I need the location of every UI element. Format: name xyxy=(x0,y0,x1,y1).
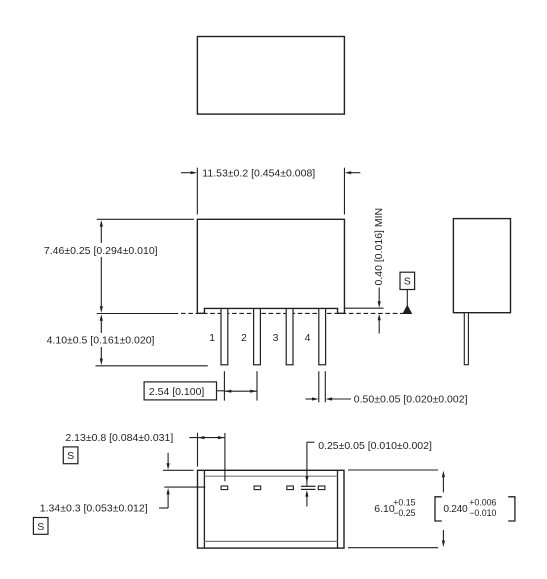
bottom view inner top line gray xyxy=(204,475,337,477)
dimension 11.53 extension lines xyxy=(197,168,344,215)
dimension 6.10 big bracket left xyxy=(435,497,442,521)
dimension 0.25 bottom arrow xyxy=(305,490,308,507)
svg-text:+0.15: +0.15 xyxy=(393,498,415,508)
pin 3 front xyxy=(286,308,293,364)
dimension 1.34 top extension line xyxy=(163,469,194,471)
svg-text:2.13±0.8 [0.084±0.031]: 2.13±0.8 [0.084±0.031] xyxy=(65,432,173,444)
dimension 6.10 bottom extension line xyxy=(348,547,438,549)
pin 4 front xyxy=(319,308,326,364)
dimension 2.54 extension lines xyxy=(224,371,257,400)
svg-text:11.53±0.2 [0.454±0.008]: 11.53±0.2 [0.454±0.008] xyxy=(202,167,315,179)
svg-text:S: S xyxy=(37,521,44,533)
svg-text:−0.010: −0.010 xyxy=(469,508,496,518)
svg-text:0.240: 0.240 xyxy=(443,504,468,515)
dimension 4.10 bottom extension line (pin end level) xyxy=(96,365,208,367)
seating plane extension solid left xyxy=(97,313,178,315)
bottom view inner wall left xyxy=(203,470,205,548)
dimension 0.40 extension line (body bottom face) xyxy=(344,307,383,309)
side view outline xyxy=(453,219,510,313)
datum leader line xyxy=(406,290,408,307)
dimension 6.10 big bracket right xyxy=(508,497,515,521)
dimension 2.13 extension lines xyxy=(198,433,225,481)
dimension 2.54 double arrow xyxy=(224,390,257,393)
pin 1 front xyxy=(221,308,228,364)
svg-text:2: 2 xyxy=(241,332,247,344)
dimension 2.54 leader xyxy=(217,390,225,392)
svg-text:4.10±0.5 [0.161±0.020]: 4.10±0.5 [0.161±0.020] xyxy=(47,335,155,347)
dimension 4.10 line with arrows xyxy=(100,314,103,365)
svg-text:1.34±0.3 [0.053±0.012]: 1.34±0.3 [0.053±0.012] xyxy=(40,503,148,515)
dimension 4.10 text xyxy=(46,333,158,347)
svg-text:7.46±0.25 [0.294±0.010]: 7.46±0.25 [0.294±0.010] xyxy=(44,245,158,257)
svg-text:2.54 [0.100]: 2.54 [0.100] xyxy=(149,386,205,398)
dimension 0.50 left arrow xyxy=(306,397,319,400)
bottom view outline xyxy=(198,470,345,548)
bottom view inner wall right xyxy=(337,470,339,548)
svg-text:0.25±0.05 [0.010±0.002]: 0.25±0.05 [0.010±0.002] xyxy=(318,440,432,452)
svg-text:0.50±0.05 [0.020±0.002]: 0.50±0.05 [0.020±0.002] xyxy=(354,394,468,406)
svg-text:4: 4 xyxy=(305,332,311,344)
pad 2 bottom view xyxy=(254,486,261,490)
dimension 0.50 extension lines xyxy=(319,371,326,402)
dimension 6.10 top arrow xyxy=(442,471,445,493)
dimension 2.13 double arrow xyxy=(189,436,225,439)
pad 3 bottom view xyxy=(287,486,294,490)
svg-text:3: 3 xyxy=(273,332,279,344)
dimension 1.34 pad extension line xyxy=(164,486,205,488)
datum S box 3 xyxy=(33,518,48,535)
dimension 7.46 text xyxy=(44,243,160,257)
pad 4 bottom view xyxy=(318,486,325,490)
datum S box xyxy=(400,272,415,289)
svg-text:0.40 [0.016] MIN: 0.40 [0.016] MIN xyxy=(373,208,385,286)
dimension 1.34 down arrow xyxy=(167,453,170,470)
pad 1 bottom view xyxy=(221,486,228,490)
dimension 7.46 top extension line xyxy=(97,218,194,220)
datum triangle xyxy=(403,305,412,313)
seating plane dash line xyxy=(181,312,405,314)
svg-text:S: S xyxy=(404,276,411,288)
dimension 0.40 lower arrow xyxy=(378,314,381,334)
side view pin xyxy=(464,313,468,365)
datum S box 2 xyxy=(63,447,78,464)
dimension 11.53 left arrow xyxy=(181,171,197,174)
dimension 1.34 up arrow and leader xyxy=(159,488,170,508)
dimension 0.25 extension lines xyxy=(301,486,316,489)
dimension 7.46 line with arrows xyxy=(100,220,103,313)
dimension 0.25 leader and top arrow xyxy=(305,442,314,486)
dimension 2.54 box xyxy=(144,382,216,400)
dimension 11.53 right arrow xyxy=(345,171,361,174)
svg-text:+0.006: +0.006 xyxy=(469,498,496,508)
svg-text:1: 1 xyxy=(209,332,215,344)
svg-text:−0.25: −0.25 xyxy=(393,508,415,518)
svg-text:6.10: 6.10 xyxy=(374,503,395,515)
top view outline xyxy=(197,37,344,115)
dimension 6.10 bottom arrow xyxy=(442,530,445,547)
dimension 0.50 right arrow xyxy=(326,397,352,400)
dimension 6.10 top extension line xyxy=(348,469,438,471)
svg-text:S: S xyxy=(67,450,74,462)
dimension 0.40 upper arrow xyxy=(378,288,381,308)
front view body outline xyxy=(197,219,344,313)
pin 2 front xyxy=(254,308,261,364)
bottom view inner bottom line gray xyxy=(204,540,337,542)
